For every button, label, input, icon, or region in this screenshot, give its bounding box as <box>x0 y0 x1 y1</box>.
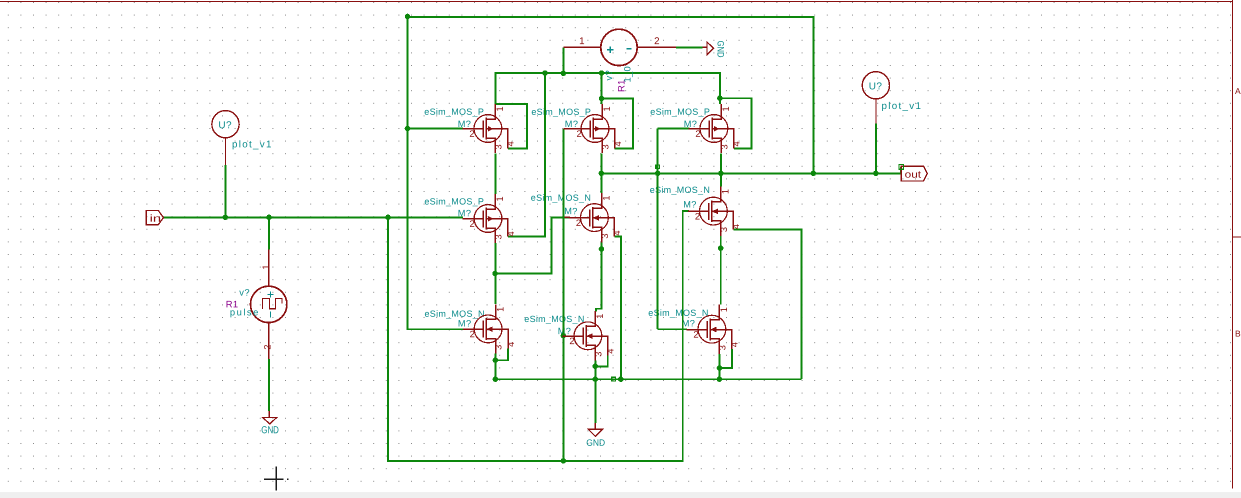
transistor M4 (P-MOS, eSim_MOS_P) body <box>463 194 508 243</box>
wire: R2C2 source chain <box>596 242 602 311</box>
svg-text:1: 1 <box>495 106 505 111</box>
wire: vsource pin1 drop <box>562 47 564 73</box>
svg-text:2: 2 <box>469 128 474 139</box>
svg-text:B: B <box>1235 329 1241 339</box>
svg-text:1: 1 <box>261 264 271 269</box>
svg-text:eSim_MOS_N: eSim_MOS_N <box>424 309 484 319</box>
GND power symbol (mid bottom) <box>594 423 596 429</box>
svg-text:2: 2 <box>695 210 700 221</box>
svg-text:1: 1 <box>721 189 731 194</box>
transistor M7 (N-MOS, eSim_MOS_N) body <box>463 304 508 353</box>
sheet border top <box>0 1 1233 3</box>
wire: R2C3 bulk down <box>734 229 802 379</box>
svg-text:GND: GND <box>586 438 605 448</box>
R1C2 gate lead extension <box>563 128 570 130</box>
wire: vsource pin2 to GND <box>676 46 703 48</box>
junction (563.4,73.3) <box>561 71 567 77</box>
svg-text:M?: M? <box>564 206 578 216</box>
junction (495.1,273.4) <box>492 271 498 277</box>
wire: supply drop to R1C2 drain <box>601 73 603 104</box>
junction (620.8,379.2) <box>618 376 624 382</box>
wire: R3C2 source down <box>594 360 596 379</box>
junction (388,217.3) <box>385 215 391 221</box>
wire B: output node <box>601 172 901 174</box>
dangling square on x657 bus <box>656 165 660 169</box>
svg-text:1: 1 <box>595 313 605 318</box>
GND power symbol (rotated, right of V2) <box>702 46 707 48</box>
wire: R1C1 source to R2C1 drain <box>494 153 496 194</box>
svg-text:v?: v? <box>239 287 250 298</box>
svg-text:plot_v1: plot_v1 <box>232 139 273 150</box>
probe U? (left) <box>212 111 239 138</box>
svg-text:1: 1 <box>579 36 584 47</box>
wire: col gate bus x=563 (R1C2 gate to bottom loop) <box>562 129 564 461</box>
svg-text:1: 1 <box>719 307 729 312</box>
wire: R1C1 bulk loop <box>495 104 526 148</box>
junction (595.3,366.3) <box>593 364 599 370</box>
junction (407.5,16.4) <box>405 14 411 20</box>
wire: input loop to R2C3 gate <box>388 211 689 461</box>
wire: top out-feedback bus <box>408 17 813 173</box>
border row tick <box>1232 236 1241 238</box>
junction (813.4,173.3) <box>811 171 817 177</box>
transistor M9 (N-MOS, eSim_MOS_N) body <box>687 305 732 354</box>
wire: R3C1 bulk link <box>495 349 508 361</box>
svg-text:eSim_MOS_N: eSim_MOS_N <box>650 185 710 195</box>
svg-text:2: 2 <box>569 335 574 346</box>
svg-text:2: 2 <box>654 36 659 47</box>
svg-text:U?: U? <box>869 81 883 92</box>
svg-text:3: 3 <box>600 233 610 238</box>
svg-text:3: 3 <box>717 345 727 350</box>
junction (225.4,217.3) <box>223 215 229 221</box>
svg-text:GND: GND <box>261 425 279 436</box>
svg-text:2: 2 <box>576 128 581 139</box>
wire: left gate bus x=407 <box>407 16 463 329</box>
wire: col gate bus x=657 <box>657 129 659 330</box>
R2C2 gate lead extension <box>565 216 571 218</box>
wire: pulse pin1 riser <box>268 217 270 249</box>
junction (495.4,379.2) <box>493 376 499 382</box>
svg-text:2: 2 <box>576 217 581 228</box>
svg-text:pulse: pulse <box>230 306 260 317</box>
svg-text:4: 4 <box>612 230 622 235</box>
wire: stage1 to R2C2 gate <box>495 217 570 273</box>
dangling square at out anchor <box>899 165 904 170</box>
svg-text:2: 2 <box>693 329 698 340</box>
wire: out label riser <box>900 167 902 173</box>
wire A: supply rail <box>495 73 720 104</box>
svg-text:3: 3 <box>494 344 504 349</box>
svg-text:eSim_MOS_P: eSim_MOS_P <box>424 107 484 117</box>
GND power symbol (under pulse source) <box>268 411 270 418</box>
wire: plot left drop <box>224 165 226 218</box>
junction (545,73) <box>542 70 548 76</box>
svg-text:4: 4 <box>613 141 623 146</box>
svg-text:v?: v? <box>603 70 614 81</box>
svg-text:4: 4 <box>731 224 741 229</box>
wire: plot right drop <box>875 123 877 173</box>
wire: input net <box>164 216 463 218</box>
junction (563.4,335.7) <box>561 333 567 339</box>
junction (269,217.3) <box>266 215 272 221</box>
svg-text:1: 1 <box>495 196 505 201</box>
svg-text:3: 3 <box>493 144 503 149</box>
svg-text:eSim_MOS_N: eSim_MOS_N <box>524 314 584 324</box>
wire: R3C1 source down <box>494 353 496 379</box>
wire: R1C1 gate <box>407 128 462 130</box>
svg-text:A: A <box>1235 86 1241 96</box>
wire C: lower rail <box>495 378 801 380</box>
svg-text:1: 1 <box>602 195 612 200</box>
svg-text:3: 3 <box>719 227 729 232</box>
transistor M8 (N-MOS, eSim_MOS_N) body <box>563 311 608 360</box>
wire: R3C3 gate <box>658 328 688 330</box>
svg-text:3: 3 <box>600 144 610 149</box>
wire: R2C3 source chain <box>720 236 722 305</box>
dangling square on wire C <box>612 377 616 381</box>
svg-text:4: 4 <box>606 348 616 353</box>
transistor M5 (N-MOS, eSim_MOS_N) body <box>569 193 614 242</box>
junction (601.6,98.4) <box>599 96 605 102</box>
junction (720.9,173.3) <box>718 171 724 177</box>
transistor M6 (N-MOS, eSim_MOS_N) body <box>688 187 733 236</box>
pulse voltage source v? <box>251 250 287 360</box>
junction (601.4,249.0) <box>599 246 605 252</box>
svg-text:4: 4 <box>506 231 516 236</box>
wire: R2C1 source chain <box>494 243 496 304</box>
junction (720.7,248.2) <box>718 245 724 251</box>
svg-text:3: 3 <box>719 144 729 149</box>
wire: GND drop mid <box>594 379 596 423</box>
port label in <box>146 210 163 224</box>
junction (719.9,98.2) <box>717 95 723 101</box>
transistor M1 (P-MOS, eSim_MOS_P) body <box>463 104 508 153</box>
svg-text:U?: U? <box>218 120 232 131</box>
svg-text:M?: M? <box>682 318 696 328</box>
svg-text:4: 4 <box>506 141 516 146</box>
svg-text:eSim_MOS_N: eSim_MOS_N <box>531 193 591 203</box>
junction (595.3,379.2) <box>593 376 599 382</box>
svg-text:out: out <box>905 170 922 181</box>
junction (601.4,173.3) <box>599 171 605 177</box>
svg-text:3: 3 <box>493 234 503 239</box>
svg-text:4: 4 <box>730 342 740 347</box>
svg-text:eSim_MOS_P: eSim_MOS_P <box>650 107 710 117</box>
svg-text:plot_v1: plot_v1 <box>881 101 922 112</box>
probe U? (right) <box>862 72 889 99</box>
wire: R1C3 bulk loop <box>720 98 752 148</box>
junction (719.4,379.2) <box>717 376 723 382</box>
junction (495.4,360.2) <box>493 357 499 363</box>
svg-text:2: 2 <box>470 328 475 339</box>
wire: R2C2 bulk down <box>614 237 621 380</box>
svg-text:M?: M? <box>683 200 697 210</box>
svg-text:2: 2 <box>262 344 272 349</box>
bottom scrollbar strip <box>0 493 1241 498</box>
svg-text:in: in <box>150 214 162 225</box>
transistor M2 (P-MOS, eSim_MOS_P) body <box>570 104 615 153</box>
cursor crosshair <box>264 478 289 480</box>
wire: R1C3 gate <box>658 128 690 130</box>
sheet border right <box>1231 0 1233 489</box>
wire: R1C2 bulk loop <box>602 98 633 148</box>
junction (875.9,173.3) <box>873 171 879 177</box>
wire: R3C2 bulk link <box>595 356 607 367</box>
svg-text:M?: M? <box>458 319 472 329</box>
voltage source V2 (top) <box>563 29 675 65</box>
svg-text:3: 3 <box>593 351 603 356</box>
svg-text:GND: GND <box>715 41 725 58</box>
port label out <box>901 166 927 181</box>
wire: R1C2 source to R2C2 drain <box>600 153 602 193</box>
svg-text:1: 1 <box>721 106 731 111</box>
svg-text:1_0: 1_0 <box>622 66 633 83</box>
junction (563.4,460.9) <box>561 458 567 464</box>
junction (719.4,368.0) <box>717 365 723 371</box>
svg-text:4: 4 <box>732 141 742 146</box>
junction (407.4,128.5) <box>405 126 411 132</box>
wire: R3C3 source down <box>718 354 720 379</box>
wire: supply to R2C1 bulk <box>508 73 545 236</box>
svg-text:eSim_MOS_P: eSim_MOS_P <box>531 107 591 117</box>
svg-text:4: 4 <box>506 341 516 346</box>
svg-text:eSim_MOS_P: eSim_MOS_P <box>424 197 484 207</box>
junction (601.6,73) <box>599 70 605 76</box>
junction (657.6,173.3) <box>655 171 661 177</box>
svg-text:2: 2 <box>469 218 474 229</box>
svg-text:2: 2 <box>695 128 700 139</box>
transistor M3 (P-MOS, eSim_MOS_P) body <box>689 104 734 153</box>
wire: R1C3 source to R2C3 drain <box>720 153 722 186</box>
svg-text:1: 1 <box>602 106 612 111</box>
wire: R3C3 bulk link <box>719 349 731 368</box>
wire: pulse pin2 to GND <box>268 359 270 411</box>
svg-text:1: 1 <box>495 306 505 311</box>
